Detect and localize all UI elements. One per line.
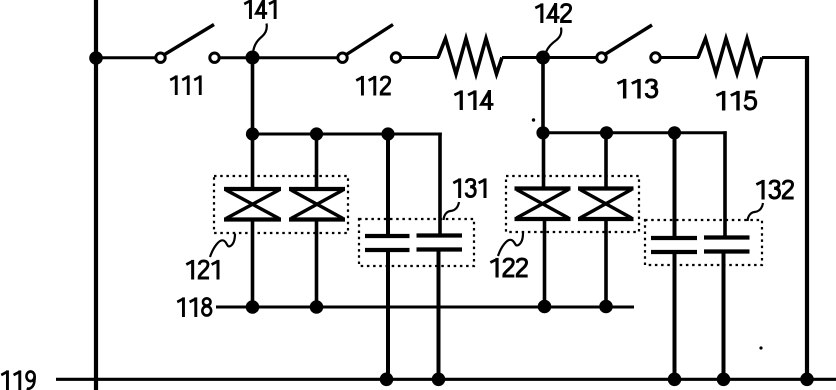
- wire sub-bus A: [252, 133, 442, 136]
- node bus119: [432, 373, 446, 387]
- speck artifact: [759, 346, 762, 349]
- leader squiggle for 121: [210, 234, 235, 258]
- capacitor C132a plates: [651, 238, 697, 252]
- wire junction box 122 right lead bottom: [604, 219, 608, 307]
- wire junction box 121 left lead bottom: [251, 219, 255, 307]
- node on sub-bus B: [536, 126, 549, 139]
- node on sub-bus B: [668, 126, 681, 139]
- dashed box 131: [359, 219, 474, 266]
- node bus119: [380, 373, 394, 387]
- wire top bus segment: switch111 to switch112: [219, 56, 339, 59]
- label 111: [170, 75, 200, 95]
- label 132: [756, 180, 793, 200]
- switch 111: [156, 25, 219, 63]
- dashed box 122: [506, 176, 639, 232]
- Josephson junction symbol 4 (hourglass): [578, 189, 634, 220]
- capacitor 131 right lead bottom: [437, 250, 441, 379]
- node 142: [536, 51, 550, 65]
- label 122: [490, 258, 527, 278]
- wire top bus segment left: [96, 56, 157, 59]
- capacitor 131 left lead bottom: [386, 250, 390, 379]
- wire sub-bus B corner down to cap 132 right: [723, 131, 727, 238]
- wire junction box 122 left lead bottom: [543, 219, 547, 307]
- switch 113: [597, 25, 660, 62]
- label 131: [453, 178, 485, 198]
- wire vertical from node142: [541, 58, 545, 134]
- switch 112: [338, 25, 401, 63]
- node on sub-bus A: [310, 127, 323, 140]
- wire junction box 122 right lead top: [604, 133, 608, 190]
- Josephson junction symbol 1 (hourglass): [224, 189, 281, 220]
- wire switch112 to resistor114: [401, 56, 440, 59]
- wire left vertical rail: [94, 0, 98, 390]
- node bus118: [246, 300, 260, 314]
- node bus119: [668, 373, 682, 387]
- wire bus 119: [56, 378, 836, 381]
- node on sub-bus A: [246, 127, 259, 140]
- node bus119: [717, 373, 731, 387]
- node 141: [246, 51, 260, 65]
- capacitor 132 right lead bottom: [722, 252, 726, 379]
- leader squiggle for 122: [498, 233, 523, 256]
- label 142: [535, 3, 571, 23]
- capacitor 132 left lead top: [673, 133, 677, 238]
- node bus118: [310, 300, 324, 314]
- Josephson junction symbol 3 (hourglass): [515, 189, 571, 220]
- node on sub-bus A: [381, 127, 394, 140]
- node bus119: [800, 373, 814, 387]
- wire right vertical rail: [805, 56, 809, 379]
- wire vertical from node141: [251, 58, 255, 135]
- leader squiggle for 142: [546, 28, 561, 53]
- dashed box 132: [645, 220, 762, 265]
- wire junction box 121 right lead top: [315, 134, 319, 190]
- capacitor 132 left lead bottom: [673, 252, 677, 379]
- node bus118: [538, 300, 552, 314]
- capacitor C131b plates: [417, 236, 463, 250]
- dashed box 121: [214, 176, 348, 233]
- wire junction box 121 left lead top: [251, 134, 255, 190]
- capacitor C132b plates: [704, 238, 750, 252]
- wire junction box 122 left lead top: [542, 133, 546, 190]
- resistor R114: [438, 39, 502, 75]
- leader squiggle for 141: [253, 24, 267, 53]
- wire sub-bus A corner down to cap 131 right: [438, 133, 442, 237]
- label 119: [1, 370, 34, 390]
- node on sub-bus B: [600, 126, 613, 139]
- label 113: [617, 79, 656, 99]
- wire resistor115 to right corner: [762, 56, 809, 59]
- wire junction box 121 right lead bottom: [315, 219, 319, 307]
- wire bus 118: [216, 306, 634, 309]
- wire switch113 to resistor115: [660, 56, 699, 59]
- label 141: [244, 0, 275, 19]
- Josephson junction symbol 2 (hourglass): [289, 189, 345, 220]
- leader squiggle for 131: [444, 202, 460, 220]
- label 118: [177, 297, 211, 317]
- label 115: [716, 91, 755, 111]
- speck artifact: [532, 118, 535, 121]
- resistor R115: [698, 39, 762, 74]
- node junction at left rail: [89, 51, 103, 65]
- node bus118: [599, 300, 613, 314]
- label 112: [356, 76, 391, 96]
- capacitor C131a plates: [365, 236, 410, 250]
- leader squiggle for 132: [748, 203, 764, 221]
- label 121: [186, 260, 218, 280]
- capacitor 131 left lead top: [386, 134, 390, 236]
- label 114: [454, 90, 493, 110]
- wire resistor114 to node142: [502, 56, 598, 59]
- wire sub-bus B: [543, 131, 727, 134]
